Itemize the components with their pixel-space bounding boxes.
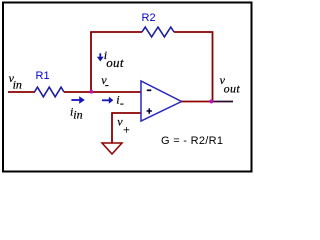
current arrow i_in bbox=[71, 96, 84, 104]
op-amp plus pin mark bbox=[147, 108, 152, 113]
resistor R1 bbox=[35, 87, 65, 97]
wire output stub bbox=[213, 101, 234, 103]
resistor R2 bbox=[142, 27, 174, 37]
svg-text:vout: vout bbox=[220, 73, 241, 95]
current arrow i_out bbox=[97, 53, 104, 61]
svg-text:vin: vin bbox=[9, 71, 22, 91]
wire feedback top left bbox=[90, 31, 142, 33]
node junction at inverting input bbox=[89, 90, 93, 94]
svg-text:iin: iin bbox=[70, 104, 83, 121]
wire feedback top right bbox=[174, 31, 213, 33]
node junction at output bbox=[209, 99, 213, 103]
svg-text:G = - R2/R1: G = - R2/R1 bbox=[161, 135, 223, 147]
svg-text:iout: iout bbox=[104, 48, 124, 70]
wire R1 to op-amp inverting input bbox=[64, 91, 141, 93]
current arrow i_minus bbox=[102, 97, 113, 104]
op-amp minus pin mark bbox=[147, 89, 152, 91]
svg-text:v-: v- bbox=[101, 73, 109, 91]
svg-text:R1: R1 bbox=[36, 70, 50, 82]
wire feedback left vertical bbox=[90, 32, 92, 92]
svg-text:R2: R2 bbox=[142, 12, 156, 24]
wire noninverting input horizontal bbox=[112, 112, 141, 114]
wire op-amp output bbox=[182, 101, 213, 103]
svg-text:v+: v+ bbox=[117, 115, 130, 137]
wire noninverting input vertical to ground bbox=[111, 112, 113, 143]
wire feedback right vertical bbox=[212, 32, 214, 102]
svg-text:i-: i- bbox=[116, 92, 124, 110]
ground bbox=[102, 143, 122, 154]
wire input from vin to R1 bbox=[8, 91, 35, 93]
op-amp U1 bbox=[141, 81, 182, 121]
